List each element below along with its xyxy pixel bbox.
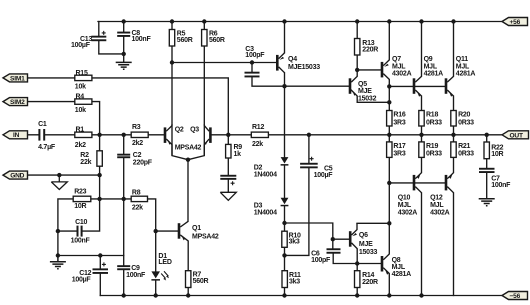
capacitor C3 plates	[245, 72, 260, 74]
port tag OUT	[502, 131, 529, 140]
svg-text:D2: D2	[254, 165, 263, 172]
junction node Q1 base	[154, 229, 158, 233]
svg-text:4302A: 4302A	[392, 71, 412, 78]
svg-text:1N4004: 1N4004	[254, 172, 277, 179]
junction node Q5 emitter	[387, 100, 391, 104]
wire Q2/Q3 emitter junction to Q1 collector	[172, 125, 204, 221]
wire -56 bottom supply rail	[100, 295, 505, 297]
svg-text:R2: R2	[80, 152, 89, 159]
svg-text:22k: 22k	[132, 205, 143, 212]
resistor R11	[282, 271, 287, 288]
junction node out line R20/R21	[451, 133, 455, 137]
svg-text:C2: C2	[133, 152, 142, 159]
plus sign C5	[310, 157, 314, 161]
svg-text:R21: R21	[458, 143, 470, 150]
svg-text:MJL: MJL	[456, 63, 470, 70]
wire D1 LED column x=155.7	[155, 231, 157, 295]
junction node GND R2	[97, 173, 101, 177]
resistor R10	[282, 231, 287, 247]
junction node Q4 emitter	[282, 84, 286, 88]
wire R6 / Q3 collector column x=204.3	[203, 22, 205, 125]
resistor R15	[75, 75, 92, 80]
wire C8 column x=123.7	[123, 22, 125, 63]
resistor R9	[226, 144, 231, 158]
svg-text:10k: 10k	[75, 83, 86, 90]
port tag -56	[502, 292, 528, 301]
resistor R2	[97, 151, 102, 166]
wire Q6 emitter / R14 column x=357.2	[356, 264, 358, 296]
svg-text:22k: 22k	[80, 159, 91, 166]
svg-text:4302A: 4302A	[398, 209, 418, 216]
resistor R22	[484, 142, 489, 159]
svg-text:C10: C10	[75, 219, 87, 226]
wire Q7 base line y=69.9	[357, 69, 381, 71]
port tag +56	[502, 18, 528, 27]
svg-text:100µF: 100µF	[71, 42, 91, 49]
capacitor C9 plates	[117, 265, 130, 267]
svg-text:1k: 1k	[234, 151, 242, 158]
junction node main line bias tap	[307, 133, 311, 137]
svg-text:2k2: 2k2	[75, 142, 86, 149]
svg-text:10R: 10R	[74, 203, 86, 210]
wire R5 stubs x=172	[171, 22, 173, 63]
wire Q6 base link from D3/R10 node	[285, 223, 349, 239]
junction node bottom rail C9	[122, 293, 126, 297]
svg-text:Q7: Q7	[392, 56, 401, 63]
svg-text:MPSA42: MPSA42	[175, 144, 202, 151]
wire Q9/Q11 base line y=86.4	[389, 85, 445, 87]
junction node C13/C8 ground	[122, 52, 126, 56]
resistor R1	[75, 132, 92, 137]
resistor R5	[169, 30, 174, 47]
resistor R18	[419, 111, 424, 127]
junction node R8 left	[122, 197, 126, 201]
svg-text:SIM1: SIM1	[10, 75, 25, 82]
port tag GND	[3, 171, 28, 179]
plus sign C13	[102, 31, 106, 35]
transistor Q9 MJL4281A	[413, 76, 422, 96]
svg-text:R17: R17	[393, 143, 405, 150]
junction node Q6 base	[331, 237, 335, 241]
port tag IN	[3, 131, 28, 139]
svg-text:R3: R3	[132, 124, 141, 131]
junction node R5 bottom	[170, 60, 174, 64]
transistor Q6 MJE15033	[349, 223, 357, 263]
wire C2 column x=123.7	[123, 135, 125, 256]
svg-text:22k: 22k	[252, 141, 263, 148]
junction node D3/R10	[282, 221, 286, 225]
svg-text:Q4: Q4	[288, 56, 297, 63]
wire R13 stubs x=357.2	[356, 22, 358, 70]
svg-text:GND: GND	[10, 173, 24, 180]
svg-text:10R: 10R	[491, 151, 503, 158]
junction node out line R16/R17	[387, 133, 391, 137]
junction node bottom rail R11	[282, 293, 286, 297]
svg-text:Q8: Q8	[392, 257, 401, 264]
svg-text:MJL: MJL	[392, 63, 406, 70]
wire Q6 collector link y=223.3	[357, 222, 389, 224]
transistor Q5 MJE15032	[349, 70, 358, 96]
wire D2 D3 bias column x=284.5	[284, 86, 286, 295]
resistor R14	[355, 271, 360, 288]
wire +56 top supply rail	[98, 21, 505, 23]
svg-text:C9: C9	[131, 265, 140, 272]
svg-text:560R: 560R	[209, 37, 225, 44]
svg-text:IN: IN	[13, 132, 20, 139]
capacitor C10 plates	[77, 226, 79, 237]
capacitor C13 plates	[91, 36, 106, 38]
svg-text:MPSA42: MPSA42	[192, 233, 219, 240]
capacitor C7 plates	[479, 168, 495, 170]
wire C3 stubs x=252	[252, 63, 285, 87]
junction node bottom rail R7	[186, 293, 190, 297]
junction node Q6 emitter R14	[355, 261, 359, 265]
junction node bottom rail Q8	[387, 293, 391, 297]
svg-text:15033: 15033	[359, 249, 378, 256]
svg-text:2k2: 2k2	[132, 140, 143, 147]
capacitor C1 plates	[38, 129, 40, 141]
resistor R20	[451, 111, 456, 127]
svg-text:0R33: 0R33	[458, 119, 474, 126]
wire Q1 base line	[156, 230, 178, 232]
svg-text:Q11: Q11	[456, 56, 468, 63]
transistor Q8 MJL4281A	[381, 254, 390, 275]
diode D2 1N4004	[281, 157, 289, 166]
diode D3 1N4004	[281, 198, 289, 207]
junction node top rail at Q9	[419, 19, 423, 23]
junction node Q7 emitter	[387, 84, 391, 88]
svg-text:100nF: 100nF	[71, 237, 91, 244]
wire R5 bottom line to Q4 base y=62.5	[172, 62, 276, 64]
wire main signal line IN to OUT y=134.8	[28, 134, 503, 136]
transistor Q12 MJL4302A	[445, 173, 454, 193]
wire GND line	[27, 174, 100, 176]
svg-text:LED: LED	[158, 259, 171, 266]
svg-text:R20: R20	[458, 112, 470, 119]
junction node C10 left	[56, 229, 60, 233]
wire Q9 column x=421.5	[421, 22, 423, 296]
ground triangle under GND line	[51, 175, 67, 189]
svg-text:MJE: MJE	[359, 241, 373, 248]
svg-text:MJL: MJL	[430, 202, 444, 209]
svg-text:3R3: 3R3	[393, 151, 405, 158]
svg-text:4.7µF: 4.7µF	[38, 144, 56, 151]
svg-text:15032: 15032	[358, 95, 377, 102]
wire C10 left / R23 left column x=57.9	[58, 199, 77, 256]
svg-text:4281A: 4281A	[392, 271, 412, 278]
wire R2 column x=99.6	[83, 135, 100, 231]
svg-text:560R: 560R	[193, 278, 209, 285]
svg-text:R12: R12	[252, 124, 264, 131]
resistor R12	[251, 132, 268, 137]
plus sign C4	[231, 181, 235, 185]
junction node top rail at R5	[170, 19, 174, 23]
svg-text:MJL: MJL	[392, 264, 406, 271]
svg-text:MJL: MJL	[398, 202, 412, 209]
svg-text:1N4004: 1N4004	[254, 210, 277, 217]
svg-text:R16: R16	[393, 112, 405, 119]
svg-text:Q12: Q12	[430, 195, 443, 202]
wire C12 stubs	[99, 256, 101, 296]
transistor Q1 MPSA42	[178, 221, 189, 270]
junction node top rail at R13	[355, 19, 359, 23]
svg-text:+56: +56	[510, 19, 521, 26]
plus sign C12	[102, 262, 106, 266]
svg-text:R1: R1	[76, 126, 85, 133]
svg-text:0R33: 0R33	[426, 151, 442, 158]
ground under C7	[479, 199, 495, 206]
junction node top rail at Q7	[387, 19, 391, 23]
junction node R13/Q5 collector	[355, 68, 359, 72]
svg-text:100nF: 100nF	[491, 182, 511, 189]
resistor R8	[131, 196, 147, 201]
wire Q2 collector column x=172	[171, 63, 173, 125]
svg-text:R8: R8	[132, 189, 141, 196]
junction node Q6 collector	[387, 221, 391, 225]
svg-text:560R: 560R	[177, 37, 193, 44]
junction node bottom rail R14	[355, 293, 359, 297]
junction node top rail at R6	[202, 19, 206, 23]
wire R9/C4 column x=228.3	[227, 135, 229, 193]
junction node R23 R2 column	[97, 197, 101, 201]
junction node ground line left	[56, 253, 60, 257]
svg-text:100nF: 100nF	[132, 36, 152, 43]
junction node bottom rail LED	[154, 293, 158, 297]
capacitor C2 plates	[117, 154, 130, 156]
svg-text:100pF: 100pF	[311, 257, 331, 264]
wire SIM1/R15 line down to node at x=228.3	[28, 78, 229, 135]
svg-text:C1: C1	[38, 121, 47, 128]
port tag SIM2	[3, 98, 28, 106]
svg-text:4281A: 4281A	[456, 71, 476, 78]
wire Q4 collector column x=284.5	[284, 22, 286, 87]
resistor R4	[75, 99, 92, 104]
capacitor C5 plates	[300, 163, 318, 165]
junction node Q10/Q12 base	[387, 181, 391, 185]
svg-text:220pF: 220pF	[133, 159, 153, 166]
svg-text:R23: R23	[74, 189, 86, 196]
svg-text:Q6: Q6	[359, 232, 368, 239]
junction node ground line C12	[98, 253, 102, 257]
wire bias tap column x=308.9 C5	[285, 135, 309, 256]
ground under C8	[116, 62, 132, 69]
wire C6 column x=333	[333, 239, 381, 263]
wire Q10/Q12 base line y=182.9	[389, 182, 445, 184]
svg-text:R19: R19	[426, 143, 438, 150]
resistor R6	[202, 30, 207, 47]
svg-text:3R3: 3R3	[393, 119, 405, 126]
svg-text:220R: 220R	[362, 46, 378, 53]
junction node main line C2	[122, 133, 126, 137]
svg-text:−56: −56	[510, 293, 521, 300]
capacitor C8 plates	[117, 32, 130, 34]
capacitor C4 plates	[220, 175, 236, 177]
transistor Q4 MJE15033	[276, 53, 285, 73]
svg-text:4281A: 4281A	[424, 71, 444, 78]
resistor R23	[73, 196, 91, 201]
svg-text:SIM2: SIM2	[10, 99, 25, 106]
resistor R19	[419, 142, 424, 158]
ground left lower at x=57.9	[50, 256, 66, 269]
svg-text:Q3: Q3	[190, 127, 199, 134]
svg-text:Q9: Q9	[424, 56, 433, 63]
junction node main line feedback	[226, 133, 230, 137]
svg-text:100µF: 100µF	[72, 276, 92, 283]
svg-text:R9: R9	[234, 144, 243, 151]
capacitor C12 plates	[93, 268, 109, 270]
svg-text:MJE: MJE	[358, 88, 372, 95]
wire Q5 emitter link y=102.3	[351, 90, 389, 102]
svg-text:100pF: 100pF	[245, 52, 265, 59]
transistor Q3 MPSA42	[204, 126, 211, 156]
junction node bottom rail Q10	[419, 293, 423, 297]
transistor Q10 MJL4302A	[413, 173, 422, 193]
svg-text:MJE15033: MJE15033	[288, 64, 320, 71]
resistor R21	[451, 142, 456, 158]
resistor R3	[131, 132, 148, 137]
wire R7 stub	[187, 288, 189, 296]
junction node top rail at C8	[56, 19, 489, 297]
junction node GND ground	[57, 173, 61, 177]
svg-text:100nF: 100nF	[126, 272, 146, 279]
wire Q7/Q8 output column x=389.3	[388, 22, 390, 296]
svg-text:220R: 220R	[362, 279, 378, 286]
wire R22 column x=486.7	[486, 135, 488, 199]
junction node top rail at Q4	[282, 19, 286, 23]
resistor R13	[355, 39, 360, 56]
junction node out line R18/R19	[419, 133, 423, 137]
svg-text:3k3: 3k3	[289, 239, 300, 246]
transistor Q2 MPSA42	[164, 126, 172, 156]
wire ground line y=255.5	[58, 256, 124, 266]
wire C9 bottom stub	[123, 270, 125, 295]
junction node top rail at Q11	[451, 19, 455, 23]
capacitor C6 plates	[327, 248, 341, 250]
svg-text:R15: R15	[76, 70, 88, 77]
svg-text:MJL: MJL	[424, 63, 438, 70]
svg-text:Q1: Q1	[192, 225, 201, 232]
svg-text:3k3: 3k3	[289, 279, 300, 286]
svg-text:Q5: Q5	[358, 81, 367, 88]
resistor R17	[387, 142, 392, 158]
transistor Q7 MJL4302A	[381, 60, 390, 80]
svg-text:100µF: 100µF	[314, 172, 334, 179]
svg-text:R4: R4	[76, 94, 85, 101]
svg-text:Q2: Q2	[175, 127, 184, 134]
wire SIM2/R4 line down to main line	[28, 102, 100, 135]
svg-text:R18: R18	[426, 112, 438, 119]
wire Q5 base line y=86.2	[285, 85, 349, 87]
port tag SIM1	[3, 74, 28, 82]
wire Q11 column x=453.5	[453, 22, 455, 296]
junction node out line R22	[485, 133, 489, 137]
svg-text:4302A: 4302A	[430, 209, 450, 216]
diode D1 LED	[151, 271, 169, 280]
junction node Q2/Q3 emitters	[186, 158, 190, 162]
junction node main line R4	[97, 133, 101, 137]
resistor R16	[387, 111, 392, 127]
transistor Q11 MJL4281A	[445, 76, 454, 96]
junction node C3 top	[250, 60, 254, 64]
svg-text:0R33: 0R33	[458, 151, 474, 158]
wire R23-R8 line y=198.9	[91, 199, 156, 231]
svg-text:10k: 10k	[75, 107, 86, 114]
junction node R10/R11	[282, 253, 286, 257]
wire C13 column x=98.8	[99, 22, 124, 54]
svg-text:OUT: OUT	[510, 132, 523, 139]
svg-text:Q10: Q10	[398, 195, 411, 202]
svg-text:0R33: 0R33	[426, 119, 442, 126]
resistor R7	[186, 271, 191, 288]
ground triangle under C4	[220, 192, 236, 200]
